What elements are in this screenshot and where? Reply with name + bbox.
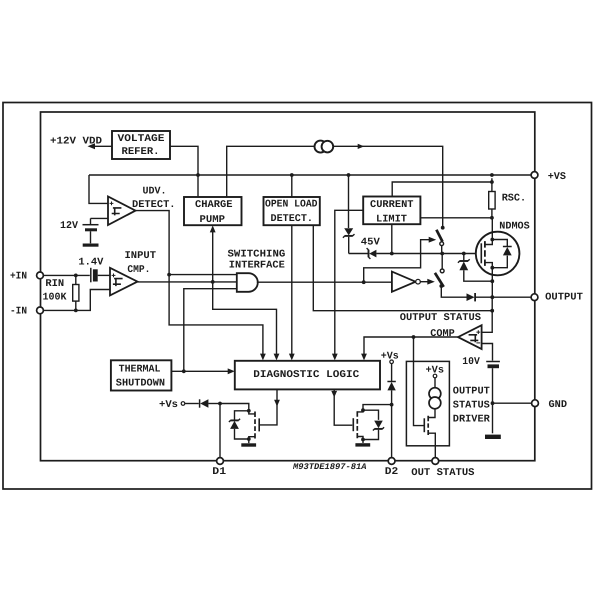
svg-text:+Vs: +Vs xyxy=(159,399,178,411)
NDMOS power transistor Q1 xyxy=(476,232,520,276)
arrowhead lower switch control xyxy=(427,279,435,285)
svg-text:DETECT.: DETECT. xyxy=(271,213,314,225)
current limit block xyxy=(363,197,420,225)
svg-text:DIAGNOSTIC LOGIC: DIAGNOSTIC LOGIC xyxy=(253,369,359,381)
svg-text:UDV.: UDV. xyxy=(143,185,167,197)
junction dot U1 output to AND top input xyxy=(167,273,171,277)
wire: branch down to diagnostic logic xyxy=(213,282,277,355)
wire: VS rail to open load detect top xyxy=(291,175,293,197)
inverter gate xyxy=(392,272,416,292)
UDV detect comparator U1 xyxy=(108,197,136,226)
arrowhead down to Q3 gate xyxy=(331,391,337,398)
resistor RIN xyxy=(75,275,77,310)
output status driver box xyxy=(406,361,449,445)
svg-text:OUTPUT STATUS: OUTPUT STATUS xyxy=(400,312,481,324)
wire: D1 node down to terminal xyxy=(219,404,221,458)
diode D1 clamp xyxy=(199,399,201,407)
channel dashes Q4 xyxy=(427,416,429,435)
zener drain-source Q2 xyxy=(235,411,249,420)
svg-text:LIMIT: LIMIT xyxy=(376,214,407,226)
wire: -IN to comparator minus input xyxy=(43,290,110,311)
body diode Q1 xyxy=(492,240,507,268)
terminal +VS xyxy=(531,172,538,179)
wire: output line xyxy=(476,296,531,298)
junction dot RSC bottom / NDMOS drain xyxy=(490,216,494,220)
channel dashes Q1 xyxy=(484,241,486,266)
junction dot Q3 source / zener xyxy=(361,438,365,442)
junction dot VS rail / open load top xyxy=(290,173,294,177)
svg-text:1.4V: 1.4V xyxy=(78,256,104,268)
zener gate-source Q1 xyxy=(463,254,465,261)
wire: current limit top sense from RSC top xyxy=(392,182,492,197)
wire: diagnostic output to Q2 gate xyxy=(259,389,277,425)
switch S2 lower xyxy=(441,254,443,269)
junction dot voltage reference / VS rail xyxy=(196,173,200,177)
wire: VDD arrow line from voltage reference xyxy=(93,145,112,147)
voltage reference block xyxy=(112,131,170,159)
svg-text:STATUS: STATUS xyxy=(453,400,490,412)
svg-text:REFER.: REFER. xyxy=(122,146,160,158)
junction dot current limit / gate line xyxy=(390,252,394,256)
open load detect block xyxy=(264,197,320,225)
arrowhead up into charge pump xyxy=(210,225,216,232)
wire: inverter output to lower switch control xyxy=(420,281,429,283)
gate bar Q2 xyxy=(258,418,260,431)
wire to D1 clamp diode xyxy=(185,403,199,405)
diode D2 clamp xyxy=(391,364,393,381)
gate bar Q1 xyxy=(480,243,482,263)
source stub Q1 xyxy=(485,263,492,298)
wire: U2 output to AND gate middle input xyxy=(138,281,237,283)
channel dashes Q2 xyxy=(254,412,256,439)
svg-text:CURRENT: CURRENT xyxy=(370,199,414,211)
svg-text:100K: 100K xyxy=(43,292,68,304)
output status comparator U3 xyxy=(458,325,482,349)
svg-text:RIN: RIN xyxy=(45,278,64,290)
junction dot RSC top / current limit sense xyxy=(490,180,494,184)
junction dot U3 output / driver gate branch xyxy=(412,335,416,339)
plus mark U3 input xyxy=(476,330,480,334)
junction dot Q2 source / zener xyxy=(247,437,251,441)
junction dot AND output branch xyxy=(362,280,366,284)
arrowhead into diagnostic logic (input cmp) xyxy=(274,354,280,361)
plus mark U2 input xyxy=(112,274,116,278)
wire: charge pump output to gate switch column xyxy=(227,146,443,227)
ground bar Q2 xyxy=(241,443,256,446)
source stub Q4 to OUT STATUS xyxy=(428,433,435,457)
svg-text:INPUT: INPUT xyxy=(125,250,157,262)
svg-text:+IN: +IN xyxy=(10,271,27,283)
diagnostic logic block xyxy=(235,361,380,390)
wire: open load sense input to output node xyxy=(313,225,492,311)
junction dot VS rail / RSC xyxy=(490,173,494,177)
wire: D1 node to Q2 drain xyxy=(220,404,255,414)
svg-text:INTERFACE: INTERFACE xyxy=(229,260,285,272)
svg-text:OUTPUT: OUTPUT xyxy=(453,386,490,398)
junction dot source / GS zener xyxy=(490,279,494,283)
hysteresis glyph U3 xyxy=(469,335,479,343)
wire: gate drive line to NDMOS gate xyxy=(349,253,482,255)
svg-text:DETECT.: DETECT. xyxy=(132,199,176,211)
wire: U3 minus input to 10V battery xyxy=(482,344,493,361)
svg-text:D1: D1 xyxy=(212,466,226,478)
junction dot VS rail / 45V clamp xyxy=(347,173,351,177)
junction dot GND rail / battery chain xyxy=(491,401,495,405)
svg-text:CHARGE: CHARGE xyxy=(195,199,233,211)
wire: voltage reference output to VS rail and charge pump xyxy=(170,146,198,197)
wire: +IN to capacitor and comparator xyxy=(43,274,90,276)
terminal GND xyxy=(532,400,539,407)
junction dot Q2 drain xyxy=(247,409,251,413)
drain stub Q1 xyxy=(485,218,492,245)
hysteresis glyph U1 xyxy=(112,208,122,216)
gate bar Q3 xyxy=(352,418,354,431)
resistor RSC xyxy=(491,178,493,218)
input comparator U2 xyxy=(110,268,138,296)
wire: branch up to charge pump input xyxy=(212,231,214,282)
wire: AND output branch to upper switch control xyxy=(364,240,431,283)
wire: lower switch to output line xyxy=(441,286,467,297)
svg-text:COMP: COMP xyxy=(430,328,455,340)
svg-text:THERMAL: THERMAL xyxy=(119,363,161,375)
junction dot +IN / RIN xyxy=(74,274,78,278)
wire: open load output to diagnostic logic xyxy=(291,225,293,355)
wire: VS rail left end down to UDV comparator + input xyxy=(89,175,108,203)
svg-text:PUMP: PUMP xyxy=(200,214,226,226)
wire: AND gate top input xyxy=(169,274,237,276)
svg-text:GND: GND xyxy=(549,399,568,411)
terminal -IN xyxy=(37,307,44,314)
diode output series xyxy=(467,293,475,301)
terminal D1 xyxy=(217,458,224,465)
junction dot Q3 drain xyxy=(361,408,365,412)
wire: 45V clamp chain vertical xyxy=(348,175,350,228)
wire: AND output to inverter xyxy=(257,281,392,283)
svg-text:10V: 10V xyxy=(462,356,480,368)
svg-text:VOLTAGE: VOLTAGE xyxy=(118,133,165,145)
zener drain-source Q3 xyxy=(363,410,379,420)
svg-text:NDMOS: NDMOS xyxy=(499,221,529,233)
junction dot gate line / switch column xyxy=(440,252,444,256)
terminal +IN xyxy=(37,272,44,279)
svg-text:DRIVER: DRIVER xyxy=(453,414,491,426)
svg-text:-IN: -IN xyxy=(10,306,27,318)
arrowhead into diagnostic logic (open load) xyxy=(289,354,295,361)
svg-text:OUTPUT: OUTPUT xyxy=(545,292,583,304)
channel dashes Q3 xyxy=(356,411,358,438)
arrowhead on charge pump output line xyxy=(358,144,365,149)
wire: U3 output to diagnostic logic and driver gate xyxy=(364,337,458,355)
svg-text:45V: 45V xyxy=(361,236,381,248)
wire: U3 plus input from output node xyxy=(482,297,493,332)
svg-text:OPEN LOAD: OPEN LOAD xyxy=(265,199,318,211)
wire: D2 node to Q3 drain xyxy=(357,405,391,412)
arrowhead into diagnostic logic (UDV) xyxy=(260,354,266,361)
junction dot U2 output branch xyxy=(211,280,215,284)
junction dot output / NDMOS source xyxy=(490,295,494,299)
wire: capacitor to U2 plus input xyxy=(98,274,110,276)
source stub Q3 xyxy=(357,437,363,444)
wire: 12V battery to U1 minus input xyxy=(91,217,109,219)
current source I2 driver xyxy=(434,378,436,388)
terminal OUTPUT xyxy=(531,294,538,301)
svg-text:SHUTDOWN: SHUTDOWN xyxy=(116,377,165,389)
junction dot thermal / AND branch xyxy=(182,369,186,373)
wire: driver gate line xyxy=(414,337,425,426)
wire: +VS rail xyxy=(89,174,531,176)
svg-text:RSC.: RSC. xyxy=(502,193,527,205)
inner chip boundary xyxy=(41,112,535,461)
wire: current limit output to gate line xyxy=(391,224,393,253)
wire: current limit left to diagnostic logic xyxy=(335,210,363,355)
svg-text:OUT STATUS: OUT STATUS xyxy=(411,467,474,479)
svg-text:D2: D2 xyxy=(385,466,399,478)
arrowhead into diagnostic logic (current limit) xyxy=(332,354,338,361)
hysteresis glyph U2 xyxy=(113,279,123,287)
zener 45V vertical xyxy=(344,228,353,235)
source stub Q2 xyxy=(249,437,255,443)
wire: GND rail xyxy=(493,402,532,404)
supply circle D1 clamp xyxy=(181,402,185,406)
terminal D2 xyxy=(388,458,395,465)
svg-text:+VS: +VS xyxy=(548,171,566,183)
svg-text:M93TDE1897-81A: M93TDE1897-81A xyxy=(292,462,367,472)
junction dot RIN / -IN xyxy=(74,309,78,313)
arrowhead upper switch control xyxy=(429,237,437,243)
current source I1 on charge pump output xyxy=(315,141,327,153)
wire: U1 output down to AND gate and diagnostic logic xyxy=(136,211,263,355)
junction dot D1 node xyxy=(218,402,222,406)
terminal OUT STATUS xyxy=(432,458,439,465)
wire: thermal shutdown output to diagnostic logic xyxy=(171,370,229,372)
junction dot D2 node xyxy=(390,403,394,407)
thermal shutdown block xyxy=(111,360,171,390)
gate bar Q4 xyxy=(423,418,425,432)
arrowhead VDD pointing left xyxy=(88,143,96,149)
AND gate switching interface xyxy=(237,273,258,292)
arrowhead down to Q2 gate xyxy=(274,400,280,407)
supply circle driver xyxy=(433,374,437,378)
switch S1 upper xyxy=(441,226,445,230)
wire: diagnostic output to Q3 gate xyxy=(334,389,352,425)
minus mark U3 input xyxy=(476,342,480,344)
junction dot gate line / GS zener xyxy=(462,252,466,256)
arrowhead into diagnostic logic (thermal) xyxy=(228,368,235,374)
ground bar below 10V battery xyxy=(485,435,501,439)
plus mark U1 input xyxy=(110,202,114,206)
charge pump block xyxy=(184,197,242,225)
svg-text:12V: 12V xyxy=(60,220,79,232)
wire: current limit right to RSC bottom xyxy=(420,217,492,219)
svg-text:+12V VDD: +12V VDD xyxy=(50,135,102,147)
junction dot output sense node xyxy=(490,309,494,313)
zener 45V horizontal xyxy=(369,250,376,258)
supply circle D2 clamp xyxy=(390,360,394,364)
ground bar Q3 xyxy=(355,443,370,446)
junction dot Q1 source / body diode xyxy=(490,266,494,270)
wire: AND bottom input from thermal line xyxy=(184,289,237,372)
outer border frame of diagram xyxy=(3,103,592,490)
arrowhead into diagnostic logic (status comp) xyxy=(361,354,367,361)
driver FET Q4 xyxy=(428,409,435,418)
svg-text:CMP.: CMP. xyxy=(127,264,150,276)
junction dot Q1 drain / body diode xyxy=(490,238,494,242)
